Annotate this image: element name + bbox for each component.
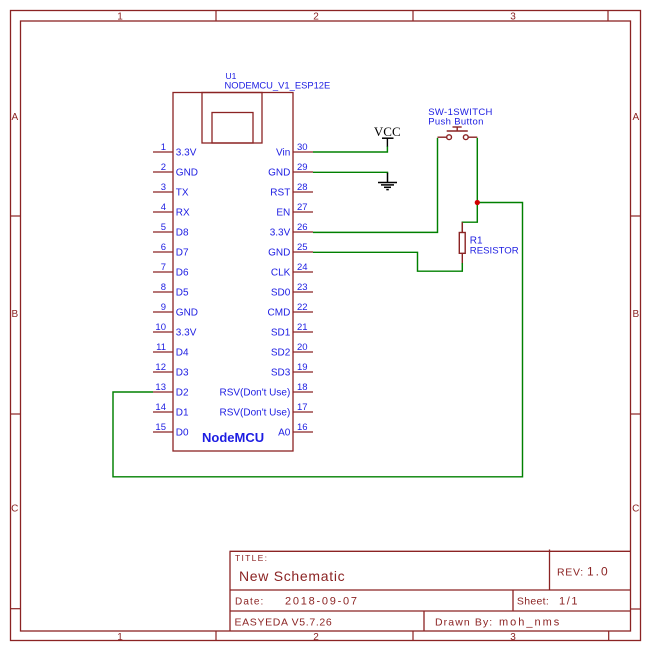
svg-text:GND: GND xyxy=(268,248,290,259)
svg-text:SD2: SD2 xyxy=(271,348,291,359)
U1 left pin numbers xyxy=(155,142,166,433)
wire GND pin29 to ground xyxy=(313,172,388,173)
svg-text:D5: D5 xyxy=(176,288,189,299)
svg-text:1: 1 xyxy=(117,632,123,643)
svg-text:EN: EN xyxy=(276,208,290,219)
svg-text:3.3V: 3.3V xyxy=(270,228,291,239)
svg-text:3: 3 xyxy=(161,182,166,193)
svg-text:REV:: REV: xyxy=(557,567,584,579)
U1 value label NODEMCU_V1_ESP12E xyxy=(225,79,331,90)
svg-text:12: 12 xyxy=(155,362,166,373)
svg-text:SD1: SD1 xyxy=(271,328,291,339)
title block text REV: 1.0 xyxy=(557,565,610,579)
svg-text:B: B xyxy=(632,309,639,320)
svg-text:C: C xyxy=(11,504,18,515)
switch SW1 push button symbol xyxy=(438,127,478,140)
svg-text:5: 5 xyxy=(161,222,166,233)
svg-text:3: 3 xyxy=(510,632,516,643)
svg-text:15: 15 xyxy=(155,422,166,433)
resistor R1 labels xyxy=(470,236,519,257)
svg-text:TX: TX xyxy=(176,188,189,199)
svg-text:D6: D6 xyxy=(176,268,189,279)
svg-text:1/1: 1/1 xyxy=(559,596,579,608)
svg-text:11: 11 xyxy=(156,342,166,353)
svg-text:20: 20 xyxy=(297,342,308,353)
svg-text:VCC: VCC xyxy=(374,124,401,139)
U1 reference designator label xyxy=(226,71,237,81)
svg-text:3.3V: 3.3V xyxy=(176,328,197,339)
svg-text:8: 8 xyxy=(161,282,166,293)
svg-text:25: 25 xyxy=(297,242,308,253)
svg-text:GND: GND xyxy=(176,168,198,179)
U1 right pin names xyxy=(219,148,290,439)
svg-text:TITLE:: TITLE: xyxy=(235,553,268,563)
svg-text:2: 2 xyxy=(313,12,319,23)
svg-text:Push Button: Push Button xyxy=(428,117,484,128)
VCC power symbol xyxy=(374,124,401,147)
svg-text:19: 19 xyxy=(297,362,308,373)
svg-text:RX: RX xyxy=(176,208,190,219)
svg-text:24: 24 xyxy=(297,262,308,273)
svg-text:2: 2 xyxy=(161,162,166,173)
title block text 1/1 xyxy=(559,596,579,608)
junction node xyxy=(475,200,480,205)
wire GND pin25 to resistor bottom xyxy=(313,252,462,271)
svg-text:6: 6 xyxy=(161,242,166,253)
svg-text:17: 17 xyxy=(297,402,308,413)
svg-text:RSV(Don't Use): RSV(Don't Use) xyxy=(219,388,290,399)
ground symbol xyxy=(378,173,397,190)
svg-text:1: 1 xyxy=(117,12,123,23)
svg-text:21: 21 xyxy=(297,322,308,333)
svg-text:NodeMCU: NodeMCU xyxy=(202,430,264,445)
svg-text:D3: D3 xyxy=(176,368,189,379)
svg-text:26: 26 xyxy=(297,222,308,233)
U1 body label NodeMCU xyxy=(202,430,264,445)
svg-text:moh_nms: moh_nms xyxy=(499,617,561,629)
wire 3.3V pin26 to switch left contact xyxy=(313,138,438,233)
svg-text:RSV(Don't Use): RSV(Don't Use) xyxy=(219,408,290,419)
svg-text:C: C xyxy=(632,504,639,515)
op-amp U1 body (NodeMCU module outline) xyxy=(173,93,293,452)
wire Vin pin30 to VCC xyxy=(313,147,387,153)
svg-text:10: 10 xyxy=(155,322,166,333)
svg-text:D4: D4 xyxy=(176,348,189,359)
svg-text:A0: A0 xyxy=(278,428,291,439)
U1 left pin lines 1-15 xyxy=(153,152,173,432)
title block text TITLE: xyxy=(235,553,268,563)
svg-text:7: 7 xyxy=(161,262,166,273)
svg-text:B: B xyxy=(11,309,18,320)
svg-text:Sheet:: Sheet: xyxy=(517,596,549,608)
svg-text:SD0: SD0 xyxy=(271,288,291,299)
title block text New Schematic xyxy=(239,568,345,584)
wire switch right contact down to resistor jog xyxy=(462,138,477,233)
svg-text:Vin: Vin xyxy=(276,148,290,159)
svg-text:NODEMCU_V1_ESP12E: NODEMCU_V1_ESP12E xyxy=(225,79,331,90)
svg-text:Date:: Date: xyxy=(235,597,264,608)
svg-text:EASYEDA V5.7.26: EASYEDA V5.7.26 xyxy=(235,617,333,629)
svg-text:2: 2 xyxy=(313,632,319,643)
title block text Drawn By: xyxy=(435,617,493,629)
svg-text:18: 18 xyxy=(297,382,308,393)
svg-text:GND: GND xyxy=(176,308,198,319)
svg-text:29: 29 xyxy=(297,162,308,173)
svg-text:28: 28 xyxy=(297,182,308,193)
svg-text:D8: D8 xyxy=(176,228,189,239)
svg-text:D1: D1 xyxy=(176,408,189,419)
svg-text:GND: GND xyxy=(268,168,290,179)
svg-text:D7: D7 xyxy=(176,248,189,259)
svg-text:CLK: CLK xyxy=(271,268,291,279)
svg-text:CMD: CMD xyxy=(268,308,291,319)
svg-text:2018-09-07: 2018-09-07 xyxy=(285,596,359,608)
title block text moh_nms xyxy=(499,617,561,629)
svg-text:New Schematic: New Schematic xyxy=(239,568,345,584)
svg-text:16: 16 xyxy=(297,422,308,433)
resistor R1 xyxy=(459,222,465,263)
title block frame xyxy=(230,550,631,632)
svg-text:22: 22 xyxy=(297,302,308,313)
svg-text:RST: RST xyxy=(270,188,290,199)
wire junction to D2 pin13 (long loop) xyxy=(113,203,523,477)
svg-text:9: 9 xyxy=(161,302,166,313)
U1 left pin names xyxy=(176,148,198,439)
svg-text:Drawn By:: Drawn By: xyxy=(435,617,493,629)
U1 right pin lines 30-16 xyxy=(293,152,313,432)
svg-text:3: 3 xyxy=(510,12,516,23)
title block text Sheet: xyxy=(517,596,549,608)
svg-text:14: 14 xyxy=(155,402,166,413)
svg-text:3.3V: 3.3V xyxy=(176,148,197,159)
title block text Date: xyxy=(235,597,264,608)
svg-text:D0: D0 xyxy=(176,428,189,439)
svg-text:D2: D2 xyxy=(176,388,189,399)
svg-text:SD3: SD3 xyxy=(271,368,291,379)
svg-text:30: 30 xyxy=(297,142,308,153)
U1 right pin numbers xyxy=(297,142,308,433)
svg-text:13: 13 xyxy=(155,382,166,393)
svg-text:23: 23 xyxy=(297,282,308,293)
svg-text:1.0: 1.0 xyxy=(587,565,610,579)
svg-text:1: 1 xyxy=(161,142,166,153)
svg-text:A: A xyxy=(632,112,639,123)
svg-text:RESISTOR: RESISTOR xyxy=(470,246,519,257)
title block text EASYEDA V5.7.26 xyxy=(235,617,333,629)
title block text 2018-09-07 xyxy=(285,596,359,608)
svg-text:27: 27 xyxy=(297,202,308,213)
svg-text:4: 4 xyxy=(161,202,166,213)
svg-text:A: A xyxy=(11,112,18,123)
switch SW1 labels xyxy=(428,107,493,128)
